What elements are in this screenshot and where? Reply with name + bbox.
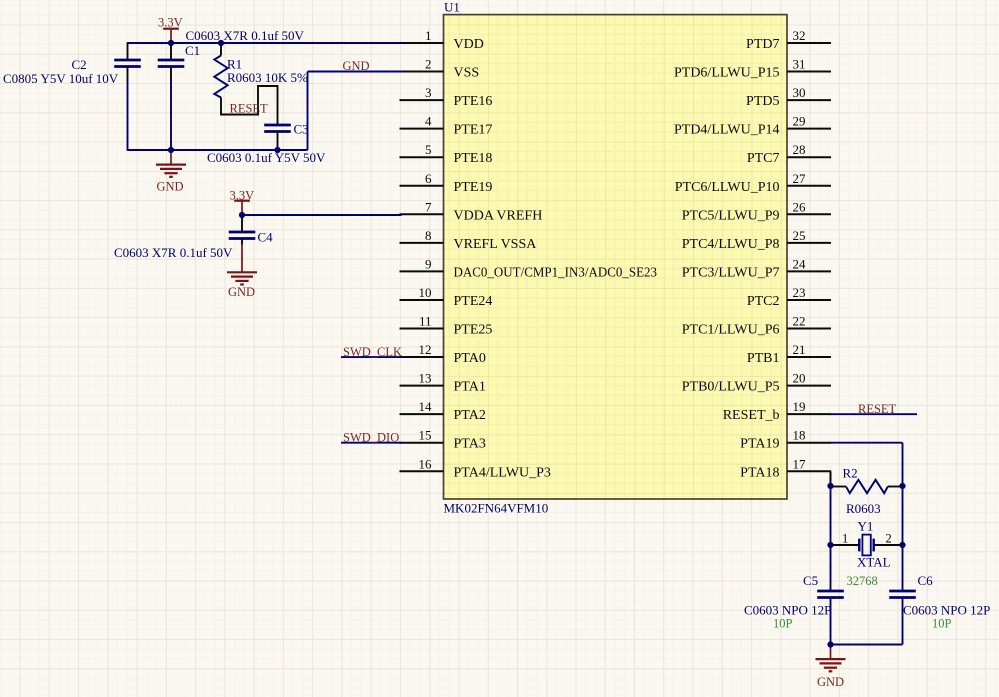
svg-text:VSS: VSS bbox=[454, 66, 480, 81]
svg-text:12: 12 bbox=[419, 342, 432, 357]
svg-text:C2: C2 bbox=[72, 57, 87, 72]
svg-text:VDD: VDD bbox=[454, 37, 484, 52]
svg-text:GND: GND bbox=[157, 180, 184, 194]
svg-text:3: 3 bbox=[425, 85, 432, 100]
svg-text:7: 7 bbox=[425, 199, 432, 214]
svg-text:8: 8 bbox=[425, 228, 432, 243]
svg-text:PTE16: PTE16 bbox=[454, 94, 493, 109]
svg-text:PTE17: PTE17 bbox=[454, 123, 493, 138]
svg-text:5: 5 bbox=[425, 142, 432, 157]
svg-text:28: 28 bbox=[793, 142, 806, 157]
svg-text:VREFL VSSA: VREFL VSSA bbox=[454, 237, 538, 252]
svg-text:PTC3/LLWU_P7: PTC3/LLWU_P7 bbox=[682, 265, 780, 280]
svg-text:R0603: R0603 bbox=[846, 501, 881, 516]
svg-text:MK02FN64VFM10: MK02FN64VFM10 bbox=[444, 500, 549, 515]
svg-text:RESET: RESET bbox=[858, 402, 897, 416]
svg-text:RESET_b: RESET_b bbox=[723, 408, 780, 423]
svg-text:PTE19: PTE19 bbox=[454, 180, 493, 195]
svg-text:PTA4/LLWU_P3: PTA4/LLWU_P3 bbox=[454, 465, 551, 480]
svg-text:VDDA VREFH: VDDA VREFH bbox=[454, 208, 543, 223]
svg-text:1: 1 bbox=[842, 532, 848, 546]
svg-text:25: 25 bbox=[793, 228, 806, 243]
svg-text:10P: 10P bbox=[932, 617, 952, 631]
svg-text:4: 4 bbox=[425, 114, 432, 129]
svg-text:SWD_DIO: SWD_DIO bbox=[343, 431, 399, 445]
svg-text:C0603 0.1uf Y5V 50V: C0603 0.1uf Y5V 50V bbox=[207, 150, 326, 165]
svg-text:Y1: Y1 bbox=[858, 519, 874, 534]
svg-text:PTA2: PTA2 bbox=[454, 408, 486, 423]
svg-text:22: 22 bbox=[793, 314, 806, 329]
svg-text:15: 15 bbox=[419, 428, 432, 443]
svg-text:19: 19 bbox=[793, 399, 806, 414]
svg-text:17: 17 bbox=[793, 456, 807, 471]
svg-text:10: 10 bbox=[419, 285, 432, 300]
svg-text:9: 9 bbox=[425, 256, 432, 271]
svg-text:C0603 X7R 0.1uf 50V: C0603 X7R 0.1uf 50V bbox=[186, 28, 305, 43]
svg-text:PTA1: PTA1 bbox=[454, 380, 486, 395]
svg-text:XTAL: XTAL bbox=[857, 555, 891, 570]
svg-text:PTC7: PTC7 bbox=[747, 151, 780, 166]
svg-text:PTE18: PTE18 bbox=[454, 151, 493, 166]
svg-text:C1: C1 bbox=[185, 43, 200, 58]
svg-text:PTA19: PTA19 bbox=[740, 437, 779, 452]
svg-text:GND: GND bbox=[228, 285, 255, 299]
svg-text:PTB1: PTB1 bbox=[747, 351, 780, 366]
svg-text:10P: 10P bbox=[773, 617, 793, 631]
svg-text:C0805 Y5V 10uf 10V: C0805 Y5V 10uf 10V bbox=[3, 71, 119, 86]
svg-text:U1: U1 bbox=[444, 0, 460, 14]
svg-text:1: 1 bbox=[425, 28, 432, 43]
svg-text:PTE24: PTE24 bbox=[454, 294, 493, 309]
svg-text:3.3V: 3.3V bbox=[230, 189, 255, 203]
svg-text:23: 23 bbox=[793, 285, 806, 300]
svg-text:C0603 X7R 0.1uf 50V: C0603 X7R 0.1uf 50V bbox=[114, 245, 233, 260]
svg-text:R0603 10K 5%: R0603 10K 5% bbox=[227, 70, 308, 85]
svg-text:24: 24 bbox=[793, 256, 807, 271]
svg-text:PTE25: PTE25 bbox=[454, 323, 493, 338]
svg-text:PTC6/LLWU_P10: PTC6/LLWU_P10 bbox=[675, 180, 780, 195]
svg-text:PTD6/LLWU_P15: PTD6/LLWU_P15 bbox=[674, 66, 780, 81]
svg-text:R2: R2 bbox=[843, 466, 858, 481]
svg-text:29: 29 bbox=[793, 114, 806, 129]
svg-text:PTA18: PTA18 bbox=[740, 465, 779, 480]
svg-text:RESET: RESET bbox=[230, 101, 269, 115]
svg-text:30: 30 bbox=[793, 85, 806, 100]
svg-text:PTC1/LLWU_P6: PTC1/LLWU_P6 bbox=[682, 323, 780, 338]
svg-text:PTB0/LLWU_P5: PTB0/LLWU_P5 bbox=[682, 380, 780, 395]
svg-text:27: 27 bbox=[793, 171, 807, 186]
svg-text:PTC2: PTC2 bbox=[747, 294, 780, 309]
svg-text:32: 32 bbox=[793, 28, 806, 43]
svg-text:11: 11 bbox=[419, 314, 432, 329]
svg-text:21: 21 bbox=[793, 342, 806, 357]
svg-text:C4: C4 bbox=[258, 230, 274, 245]
svg-text:GND: GND bbox=[343, 59, 370, 73]
svg-text:PTD4/LLWU_P14: PTD4/LLWU_P14 bbox=[674, 123, 780, 138]
svg-text:14: 14 bbox=[419, 399, 433, 414]
svg-text:C3: C3 bbox=[294, 122, 309, 137]
svg-text:PTC4/LLWU_P8: PTC4/LLWU_P8 bbox=[682, 237, 780, 252]
svg-text:PTA0: PTA0 bbox=[454, 351, 486, 366]
svg-text:3.3V: 3.3V bbox=[158, 16, 183, 30]
svg-text:PTA3: PTA3 bbox=[454, 437, 486, 452]
svg-text:PTC5/LLWU_P9: PTC5/LLWU_P9 bbox=[682, 208, 780, 223]
svg-text:PTD5: PTD5 bbox=[746, 94, 779, 109]
svg-text:C0603 NPO 12P: C0603 NPO 12P bbox=[903, 603, 990, 618]
svg-text:C5: C5 bbox=[803, 573, 818, 588]
svg-text:2: 2 bbox=[425, 57, 432, 72]
svg-text:SWD_CLK: SWD_CLK bbox=[343, 345, 402, 359]
svg-text:DAC0_OUT/CMP1_IN3/ADC0_SE23: DAC0_OUT/CMP1_IN3/ADC0_SE23 bbox=[454, 265, 658, 280]
svg-text:32768: 32768 bbox=[847, 574, 878, 588]
svg-text:16: 16 bbox=[419, 456, 433, 471]
svg-text:C6: C6 bbox=[918, 573, 934, 588]
svg-text:13: 13 bbox=[419, 371, 432, 386]
svg-text:20: 20 bbox=[793, 371, 806, 386]
svg-text:C0603 NPO 12P: C0603 NPO 12P bbox=[744, 603, 831, 618]
svg-text:GND: GND bbox=[817, 675, 844, 689]
svg-text:31: 31 bbox=[793, 57, 806, 72]
svg-text:PTD7: PTD7 bbox=[746, 37, 779, 52]
svg-text:18: 18 bbox=[793, 428, 806, 443]
svg-text:2: 2 bbox=[886, 532, 892, 546]
svg-text:26: 26 bbox=[793, 199, 807, 214]
svg-text:6: 6 bbox=[425, 171, 432, 186]
